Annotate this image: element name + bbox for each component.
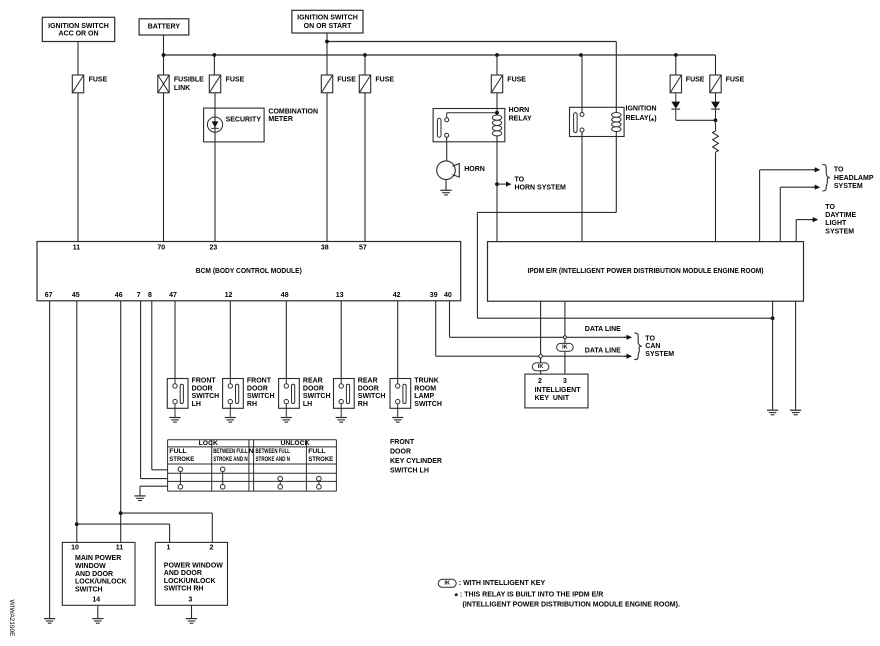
rear door switch LH box [279,379,300,417]
wire IPDM to intelligent key pin 3 [564,301,566,374]
wire BCM pin 45 down [76,301,78,543]
label combination meter [268,108,318,123]
label ignition relay [626,106,657,126]
svg-text:SWITCH: SWITCH [414,401,442,408]
svg-text:STROKE AND N: STROKE AND N [213,456,248,463]
svg-text:IK: IK [562,345,568,351]
svg-text:LOCK/UNLOCK: LOCK/UNLOCK [75,579,127,586]
svg-text:LAMP: LAMP [414,393,434,400]
wire IPDM to headlamp 2 [780,187,815,241]
wire bus to fuse x214 [213,55,215,75]
svg-text:DOOR: DOOR [247,385,268,392]
svg-text:LH: LH [303,401,312,408]
svg-text:70: 70 [157,245,165,252]
fuse F3 [321,75,332,93]
ground under front door switch LH [169,418,180,423]
horn relay coil [492,115,501,136]
svg-text:8: 8 [148,292,152,299]
arrowhead headlamp 2 [812,185,820,190]
horn [437,161,460,180]
wire diode join [676,119,716,121]
svg-text:RH: RH [358,401,368,408]
svg-text:WINDOW: WINDOW [75,563,106,570]
svg-text:2: 2 [538,378,542,385]
legend star note line 1 [454,592,603,603]
ignition ON/START bus line y42 [327,41,616,43]
svg-text:3: 3 [188,596,192,603]
ground RH switch [186,619,197,624]
svg-text:SWITCH: SWITCH [75,586,103,593]
svg-text:FUSE: FUSE [686,76,705,83]
fuse F5 [491,75,502,93]
svg-text:SWITCH: SWITCH [303,393,331,400]
wire BCM pin 8 to key cylinder row 1 [152,301,168,470]
svg-text:TO: TO [825,204,835,211]
wire fuse F1 to BCM pin 11 [77,93,79,242]
junction dot battery-bus x497 [495,53,499,57]
svg-text:STROKE: STROKE [308,456,333,463]
svg-text:LINK: LINK [174,85,190,92]
svg-text:3: 3 [563,378,567,385]
svg-text:11: 11 [116,544,124,551]
front door switch RH box [223,379,244,417]
wire BCM pin 12 to front door switch RH [229,301,231,379]
ground under rear door switch LH [281,418,292,423]
battery bus line y55 [164,54,716,56]
svg-text:RH: RH [247,401,257,408]
svg-text:67: 67 [45,292,53,299]
wire bus to fuse x497 [496,55,498,75]
svg-text:46: 46 [115,292,123,299]
svg-text:LH: LH [192,401,201,408]
svg-text:: THIS RELAY IS BUILT INTO THE: : THIS RELAY IS BUILT INTO THE IPDM E/R [460,592,603,599]
wire BCM pin 39 to data line 2 [436,301,628,356]
arrowhead daytime [810,217,818,222]
unlock full-stroke contact [317,476,322,489]
horn relay contact [437,118,448,138]
svg-text:*: * [454,592,458,603]
arrowhead data line 1 [624,335,632,340]
wire to resistor [715,120,717,131]
wire pin46 branch to RH switch pin 2 [121,513,213,542]
svg-text:HORN SYSTEM: HORN SYSTEM [515,184,567,191]
svg-text:48: 48 [281,292,289,299]
brace CAN [634,333,641,360]
label to CAN system [645,335,674,357]
wire IPDM to daytime light [796,220,814,242]
junction dot coil path to IPDM ground wire [771,316,775,320]
arrow to horn system [497,182,512,187]
svg-text:IPDM E/R (INTELLIGENT POWER DI: IPDM E/R (INTELLIGENT POWER DISTRIBUTION… [528,268,764,275]
svg-text:11: 11 [73,245,81,252]
svg-text:SWITCH RH: SWITCH RH [164,586,204,593]
svg-text:HORN: HORN [509,107,530,114]
svg-text:WIWA2190E: WIWA2190E [8,600,15,638]
junction dot ignition bus [325,40,329,44]
IK oval on pin 3 wire [557,343,574,351]
svg-text:SWITCH: SWITCH [358,393,386,400]
brace headlamp [822,165,829,191]
svg-text:LIGHT: LIGHT [825,220,847,227]
junction dot to horn system [495,182,499,186]
wire bus corner to fuse x715 [715,55,717,75]
svg-text:1: 1 [167,544,171,551]
svg-text:DOOR: DOOR [358,385,379,392]
wire ignition ON/START down to fuse [326,33,328,75]
ignition relay contact [574,113,584,133]
svg-text:SYSTEM: SYSTEM [834,183,863,190]
svg-text:FRONT: FRONT [247,378,272,385]
node diamond data line 2 [538,354,543,359]
svg-text:FRONT: FRONT [192,378,217,385]
diode D2 [711,93,720,121]
wire fuse F2 through security to BCM pin 23 [214,93,216,242]
label to daytime light system [825,204,856,235]
svg-text:IGNITION SWITCH: IGNITION SWITCH [48,23,109,30]
svg-text:10: 10 [71,544,79,551]
junction dot pin45 branch [75,522,79,526]
junction dot battery-bus x365 [363,53,367,57]
intelligent key unit box [525,374,588,408]
svg-text:SECURITY: SECURITY [226,117,262,124]
wire ignition bus to ignition relay coil [615,42,617,113]
combination meter security box [204,108,265,142]
arrowhead headlamp 1 [812,167,820,172]
IK oval on pin 2 wire [532,363,549,371]
wire bus to ignition relay contact [581,55,583,113]
svg-text:FUSIBLE: FUSIBLE [174,76,204,83]
svg-text:39: 39 [430,292,438,299]
BCM bottom pin labels [45,292,452,299]
svg-text:REAR: REAR [358,378,378,385]
svg-text:SYSTEM: SYSTEM [825,228,854,235]
rear door switch RH box [334,379,355,417]
wire horn to ground [445,180,447,191]
svg-text:40: 40 [444,292,452,299]
lock between contact [220,467,225,489]
diode D1 [671,93,680,121]
svg-text:FUSE: FUSE [726,76,745,83]
svg-text:AND DOOR: AND DOOR [75,571,113,578]
arrowhead data line 2 [624,354,632,359]
svg-text:BETWEEN FULL: BETWEEN FULL [213,448,248,455]
svg-text:SWITCH LH: SWITCH LH [390,468,429,475]
svg-text:(INTELLIGENT POWER DISTRIBUTIO: (INTELLIGENT POWER DISTRIBUTION MODULE E… [463,602,680,609]
wire fuse F5 into horn relay [496,93,498,115]
ignition switch ON/START box [292,10,363,33]
svg-text:STROKE: STROKE [169,456,194,463]
ground under trunk room lamp switch [392,418,403,423]
fuse F2 [209,75,220,93]
label to headlamp system [834,166,874,190]
junction dot battery-bus x581 [579,53,583,57]
svg-text:IK: IK [444,581,450,587]
horn relay internal link [447,113,497,118]
svg-text:47: 47 [169,292,177,299]
svg-text:POWER WINDOW: POWER WINDOW [164,562,223,569]
svg-text:CAN: CAN [645,343,660,350]
wire ignition relay contact to IPDM [581,132,583,242]
svg-text:TO: TO [645,335,655,342]
svg-text:BETWEEN FULL: BETWEEN FULL [256,448,291,455]
svg-text:KEY CYLINDER: KEY CYLINDER [390,458,442,465]
svg-text:DOOR: DOOR [192,385,213,392]
junction dot diode join [714,118,718,122]
svg-text:SWITCH: SWITCH [192,393,220,400]
svg-text:13: 13 [336,292,344,299]
unlock between contact [278,476,283,489]
wire BCM pin 42 to trunk room lamp switch [397,301,399,379]
svg-text:AND DOOR: AND DOOR [164,570,202,577]
svg-text:N: N [249,448,254,455]
junction dot pin46 branch [119,511,123,515]
lock full-stroke contact [178,467,183,489]
svg-text:12: 12 [225,292,233,299]
fuse F6 [670,75,681,93]
svg-text:FRONT: FRONT [390,439,415,446]
svg-text:45: 45 [72,292,80,299]
wire BCM pin 46 down [120,301,122,543]
ignition relay box [570,107,625,136]
BCM top pin labels [73,245,367,252]
wire BCM pin 48 to rear door switch LH [285,301,287,379]
svg-text:SWITCH: SWITCH [247,393,275,400]
label fusible link [174,76,204,92]
svg-text:LOCK: LOCK [199,440,218,447]
svg-text:57: 57 [359,245,367,252]
wire ignition relay coil ground path [477,132,772,319]
ground main switch [92,619,103,624]
key cylinder switch table frame [168,440,337,491]
wire BCM pin 40 to data line 1 [450,301,628,338]
svg-text:INTELLIGENT: INTELLIGENT [535,387,582,394]
svg-text:: WITH INTELLIGENT KEY: : WITH INTELLIGENT KEY [459,580,546,587]
main power window switch box [62,542,135,605]
wire resistor to IPDM [715,152,717,241]
svg-text:7: 7 [137,292,141,299]
svg-text:FUSE: FUSE [89,76,108,83]
security indicator lamp [207,117,222,132]
svg-text:IGNITION SWITCH: IGNITION SWITCH [297,15,358,22]
ground IPDM 2 [790,410,801,415]
ignition relay coil [612,112,621,131]
svg-text:KEY UNIT: KEY UNIT [535,395,570,402]
label trunk room lamp switch [414,378,442,408]
ground under rear door switch RH [336,418,347,423]
resistor [713,131,719,153]
svg-text:TRUNK: TRUNK [414,378,439,385]
wire RH switch pin 3 to ground [191,605,193,618]
svg-text:FUSE: FUSE [337,76,356,83]
horn relay box [433,109,505,142]
svg-text:ROOM: ROOM [414,385,436,392]
svg-text:HEADLAMP: HEADLAMP [834,175,874,182]
fuse F7 [710,75,721,93]
trunk room lamp switch box [390,379,411,417]
svg-text:FULL: FULL [169,448,186,455]
svg-text:ON OR START: ON OR START [304,23,352,30]
svg-text:COMBINATION: COMBINATION [268,108,318,115]
power window RH switch box [155,542,227,605]
wire bus to fuse x365 [364,55,366,75]
label rear door switch RH [358,378,386,408]
svg-text:SYSTEM: SYSTEM [645,351,674,358]
table subheader labels [169,448,333,463]
wire fusible link to BCM pin 70 [163,93,165,242]
fuse F4 [359,75,370,93]
svg-text:IGNITION: IGNITION [626,106,657,113]
svg-text:DOOR: DOOR [390,449,411,456]
svg-text:FULL: FULL [308,448,325,455]
wire IPDM ground 1 [772,301,774,410]
wire BCM pin 7 to key cylinder row 2 [141,301,168,479]
label horn relay [509,107,532,122]
ground under horn [440,190,451,195]
svg-text:LOCK/UNLOCK: LOCK/UNLOCK [164,578,216,585]
junction dot battery-bus at battery [162,53,166,57]
IPDM E/R box [488,242,804,302]
svg-text:HORN: HORN [464,166,485,173]
svg-text:FUSE: FUSE [226,76,245,83]
svg-text:FUSE: FUSE [375,76,394,83]
svg-text:FUSE: FUSE [507,76,526,83]
label front door key cylinder switch LH [390,439,442,475]
ignition switch ACC box [42,17,114,41]
svg-text:ACC OR ON: ACC OR ON [58,31,98,38]
BCM box [37,242,461,301]
wire IPDM ground 2 [795,301,797,410]
svg-text:BATTERY: BATTERY [148,24,181,31]
wire BCM pin 13 to rear door switch RH [340,301,342,379]
wire fuse F4 to BCM pin 57 [364,93,366,242]
svg-text:IK: IK [538,364,544,370]
svg-text:UNLOCK: UNLOCK [280,440,309,447]
wire horn relay contact to horn [446,137,448,161]
node circle data line 1 [563,336,566,339]
svg-text:METER: METER [268,116,293,123]
wire BCM pin 47 to front door switch LH [174,301,176,379]
wire bus to fuse x676 [675,55,677,75]
svg-text:DATA LINE: DATA LINE [585,326,621,333]
svg-text:BCM (BODY CONTROL MODULE): BCM (BODY CONTROL MODULE) [196,268,302,275]
svg-text:RELAY: RELAY [509,115,532,122]
svg-text:STROKE AND N: STROKE AND N [256,456,291,463]
svg-text:DAYTIME: DAYTIME [825,212,856,219]
front door switch LH box [167,379,188,417]
svg-text:TO: TO [515,177,525,184]
junction dot battery-bus x676 [674,53,678,57]
svg-text:REAR: REAR [303,378,323,385]
wire battery down [163,35,165,75]
svg-text:14: 14 [92,596,100,603]
svg-text:38: 38 [321,245,329,252]
wire main switch pin 14 to ground [97,605,99,618]
wire key cylinder ground stub [140,486,168,495]
junction dot horn relay coil top [495,111,499,115]
wire horn relay coil to IPDM [496,136,498,242]
ground pin 67 [44,619,55,624]
svg-text:DOOR: DOOR [303,385,324,392]
svg-text:MAIN POWER: MAIN POWER [75,555,121,562]
wire ignition ACC to fuse [77,42,79,76]
fusible link [158,75,169,93]
battery box [139,19,189,35]
legend IK oval [438,579,456,587]
label front door switch RH [247,378,275,408]
wire IPDM to headlamp 1 [760,170,816,242]
wire BCM pin 67 to ground [49,301,51,618]
ground key cylinder [134,496,145,501]
svg-text:23: 23 [210,245,218,252]
junction dot battery-bus x214 [213,53,217,57]
wire pin45 branch to RH switch pin 1 [77,524,170,542]
ground IPDM 1 [767,410,778,415]
svg-text:TO: TO [834,166,844,173]
label rear door switch LH [303,378,331,408]
svg-text:2: 2 [210,544,214,551]
svg-text:42: 42 [393,292,401,299]
svg-text:DATA LINE: DATA LINE [585,348,621,355]
label to horn system [515,177,567,192]
wire fuse F3 to BCM pin 38 [326,93,328,242]
label front door switch LH [192,378,220,408]
ground under front door switch RH [225,418,236,423]
wire IPDM to intelligent key pin 2 [540,301,542,374]
fuse F1 [72,75,83,93]
table header labels [199,440,310,447]
